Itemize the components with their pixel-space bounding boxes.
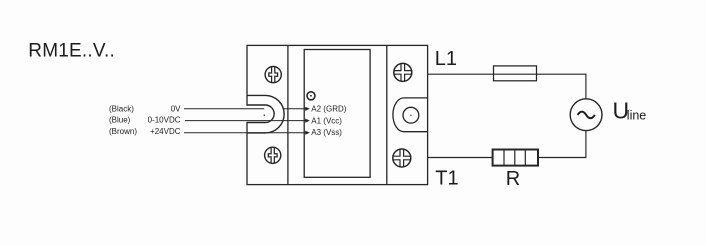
svg-text:0V: 0V (171, 104, 181, 113)
svg-text:(Black): (Black) (109, 104, 134, 113)
svg-text:RM1E..V..: RM1E..V.. (28, 40, 115, 61)
svg-text:A1 (Vcc): A1 (Vcc) (311, 116, 342, 125)
svg-text:A2 (GRD): A2 (GRD) (311, 104, 346, 113)
svg-text:A3 (Vss): A3 (Vss) (311, 128, 342, 137)
svg-text:(Brown): (Brown) (109, 127, 137, 136)
svg-text:(Blue): (Blue) (109, 116, 131, 125)
svg-text:0-10VDC: 0-10VDC (148, 116, 181, 125)
svg-text:+24VDC: +24VDC (150, 127, 181, 136)
svg-text:line: line (627, 108, 647, 122)
svg-text:L1: L1 (435, 48, 457, 70)
svg-text:T1: T1 (435, 167, 458, 189)
svg-text:R: R (506, 168, 520, 190)
